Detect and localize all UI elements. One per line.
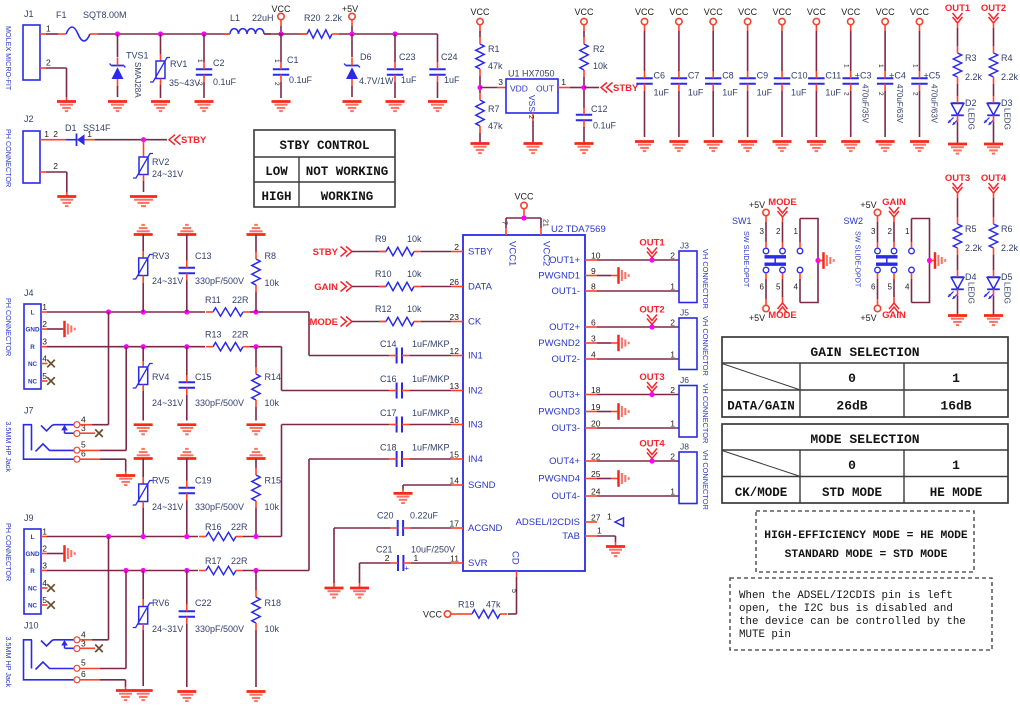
- svg-text:C18: C18: [380, 443, 397, 453]
- svg-text:R20: R20: [304, 13, 321, 23]
- svg-text:2.2k: 2.2k: [965, 243, 983, 253]
- svg-text:2: 2: [877, 92, 884, 96]
- capacitor C23 1uF: [387, 34, 417, 98]
- svg-text:DATA/GAIN: DATA/GAIN: [727, 400, 795, 414]
- wire U2 CD pin 5 to R19: [508, 571, 517, 614]
- svg-text:1uF: 1uF: [791, 88, 807, 98]
- capacitor C13 330pF/500V: [179, 235, 244, 313]
- net flag MODE (SW1 pin5): [768, 273, 797, 321]
- ground J2: [57, 197, 76, 207]
- svg-text:2: 2: [454, 242, 459, 252]
- svg-text:2: 2: [670, 251, 675, 261]
- wire U2 OUT2+ to J5: [597, 326, 679, 328]
- svg-text:2.2k: 2.2k: [1001, 72, 1019, 82]
- svg-text:1: 1: [46, 24, 51, 34]
- label VH CONNECTOR (J8): [701, 450, 710, 510]
- svg-text:3: 3: [42, 337, 47, 347]
- connector J8 VH CONNECTOR: [670, 442, 697, 504]
- svg-text:0.1uF: 0.1uF: [289, 75, 313, 85]
- svg-text:C23: C23: [399, 52, 416, 62]
- pin 15 (IN4) of U2: [450, 450, 483, 466]
- svg-text:+5V: +5V: [860, 200, 876, 210]
- svg-text:D1: D1: [65, 123, 77, 133]
- varistor RV3 24~31V: [133, 235, 184, 313]
- wire SW2 pin1 and pin4 bracket: [912, 219, 930, 303]
- svg-text:3: 3: [42, 561, 47, 571]
- svg-text:24~31V: 24~31V: [152, 502, 183, 512]
- svg-text:1: 1: [670, 487, 675, 497]
- svg-text:VCC: VCC: [738, 7, 758, 17]
- capacitor C17 1uF/MKP: [380, 408, 450, 433]
- svg-text:10: 10: [591, 251, 601, 261]
- label VH CONNECTOR (J5): [701, 316, 710, 376]
- ground C3: [841, 142, 860, 152]
- svg-text:10k: 10k: [593, 61, 608, 71]
- junction VCC-C1: [278, 31, 283, 36]
- svg-text:3.5MM HP Jack: 3.5MM HP Jack: [4, 637, 13, 688]
- svg-text:SVR: SVR: [468, 558, 488, 569]
- svg-text:MODE: MODE: [768, 197, 797, 208]
- svg-text:1: 1: [952, 458, 960, 473]
- svg-text:R9: R9: [375, 234, 387, 244]
- svg-text:1uF/MKP: 1uF/MKP: [412, 408, 450, 418]
- svg-text:330pF/500V: 330pF/500V: [195, 398, 244, 408]
- junction R2ch jack: [123, 568, 128, 573]
- svg-text:PH CONNECTOR: PH CONNECTOR: [4, 298, 13, 356]
- ground J9 pin2 (sideways): [65, 545, 75, 562]
- wire D4 to ground: [957, 296, 959, 316]
- wire J10 pin6 to ground: [80, 680, 125, 691]
- svg-text:2: 2: [53, 161, 58, 171]
- svg-text:21: 21: [542, 219, 549, 227]
- varistor RV2 24~31V: [133, 140, 183, 192]
- svg-text:MODE SELECTION: MODE SELECTION: [810, 432, 919, 447]
- svg-text:PWGND3: PWGND3: [538, 407, 580, 418]
- svg-text:WORKING: WORKING: [321, 190, 374, 204]
- power port VCC (C6): [635, 7, 655, 71]
- svg-text:1uF: 1uF: [688, 88, 704, 98]
- net flag OUT4: [981, 173, 1007, 193]
- svg-text:OUT1+: OUT1+: [549, 255, 580, 266]
- svg-text:R4: R4: [1001, 53, 1013, 63]
- junction L1ch RV3: [141, 309, 146, 314]
- svg-text:C20: C20: [377, 511, 394, 521]
- power port VCC (C10): [772, 7, 792, 71]
- svg-text:14: 14: [450, 476, 460, 486]
- wire R5 to D4: [957, 255, 959, 270]
- svg-text:2: 2: [776, 227, 781, 236]
- diode D1 SS14F: [46, 123, 111, 146]
- label VH CONNECTOR (J3): [701, 249, 710, 309]
- svg-text:VCC: VCC: [514, 192, 534, 202]
- svg-text:IN4: IN4: [468, 454, 483, 465]
- svg-text:C1: C1: [287, 55, 299, 65]
- svg-text:1: 1: [597, 526, 602, 536]
- svg-text:J3: J3: [680, 241, 689, 251]
- pin 18 (OUT3+) of U2: [549, 385, 601, 401]
- resistor R11 22R: [205, 295, 250, 316]
- svg-text:PH CONNECTOR: PH CONNECTOR: [4, 129, 13, 187]
- svg-text:2.2k: 2.2k: [325, 13, 343, 23]
- svg-text:13: 13: [450, 381, 460, 391]
- svg-text:GAIN: GAIN: [882, 197, 906, 208]
- no-connect J4 pin4: [41, 360, 55, 368]
- svg-text:C10: C10: [791, 71, 808, 81]
- wire GAIN to R10: [352, 286, 386, 288]
- wire J10 pin5: [80, 571, 126, 669]
- ground RV5 (inverted): [134, 449, 153, 459]
- capacitor C11 1uF: [808, 71, 841, 138]
- svg-text:RV2: RV2: [152, 157, 169, 167]
- resistor R20 2.2k: [300, 13, 343, 38]
- wire U1 VSS pin 2 to ground: [527, 113, 534, 144]
- svg-text:0: 0: [848, 371, 856, 386]
- power port VCC (C7): [669, 7, 689, 71]
- resistor R7 47k: [476, 93, 503, 133]
- svg-text:1: 1: [905, 227, 910, 236]
- svg-text:24~31V: 24~31V: [152, 624, 183, 634]
- svg-text:8: 8: [591, 282, 596, 292]
- junction L2ch RV5: [141, 534, 146, 539]
- wire OUT1 to R3: [957, 23, 959, 46]
- power port VCC (C9): [738, 7, 758, 71]
- svg-text:GAIN: GAIN: [882, 310, 906, 321]
- svg-text:12: 12: [450, 346, 460, 356]
- svg-text:U1: U1: [508, 69, 520, 79]
- svg-text:RV1: RV1: [170, 59, 187, 69]
- resistor R3 2.2k: [953, 46, 982, 84]
- svg-text:5: 5: [42, 371, 47, 381]
- svg-text:26: 26: [450, 277, 460, 287]
- svg-text:VDD: VDD: [510, 84, 528, 94]
- svg-text:10k: 10k: [265, 278, 280, 288]
- svg-text:R15: R15: [265, 476, 282, 486]
- svg-text:5: 5: [42, 595, 47, 605]
- ground C7: [669, 142, 688, 152]
- svg-text:7: 7: [501, 221, 508, 225]
- ground C23: [386, 102, 405, 112]
- pin 23 (CK) of U2: [450, 312, 482, 328]
- svg-text:PH CONNECTOR: PH CONNECTOR: [4, 523, 13, 581]
- capacitor C14 1uF/MKP: [380, 339, 450, 364]
- resistor R19 47k: [458, 600, 507, 619]
- svg-text:J4: J4: [24, 288, 34, 298]
- svg-text:1uF/MKP: 1uF/MKP: [412, 339, 450, 349]
- ground C2: [195, 102, 214, 112]
- ground RV6: [134, 691, 153, 701]
- svg-text:STANDARD MODE = STD MODE: STANDARD MODE = STD MODE: [785, 549, 948, 561]
- svg-text:L: L: [31, 534, 35, 541]
- connector J9 PH CONNECTOR: [24, 513, 47, 614]
- svg-text:5: 5: [888, 283, 893, 292]
- ground C6: [635, 142, 654, 152]
- pin 19 (PWGND3) of U2: [538, 402, 600, 418]
- power port VCC (C4): [876, 7, 896, 71]
- svg-text:47k: 47k: [488, 61, 503, 71]
- svg-text:1: 1: [670, 282, 675, 292]
- svg-text:NC: NC: [28, 603, 38, 610]
- junction OUT2: [649, 324, 654, 329]
- svg-text:HX7050: HX7050: [522, 69, 555, 79]
- svg-text:MOLEX MICRO-FIT: MOLEX MICRO-FIT: [4, 26, 13, 91]
- junction R2ch R18: [253, 568, 258, 573]
- junction R2ch C22: [184, 568, 189, 573]
- net flag GAIN (U2 input): [314, 282, 352, 294]
- svg-text:10k: 10k: [265, 624, 280, 634]
- svg-text:C12: C12: [591, 104, 608, 114]
- svg-text:VCC1: VCC1: [507, 241, 518, 266]
- net flag OUT4 (output): [639, 439, 665, 459]
- svg-text:+C4: +C4: [889, 71, 906, 81]
- wire OUT3 to R5: [957, 193, 959, 217]
- svg-text:1uF/MKP: 1uF/MKP: [412, 443, 450, 453]
- power port VCC (R19): [423, 610, 465, 620]
- resistor R18 10k: [252, 571, 281, 688]
- svg-text:J7: J7: [24, 405, 34, 415]
- svg-text:19: 19: [591, 402, 601, 412]
- ground RV1: [151, 102, 170, 112]
- wire D5 to ground: [993, 296, 995, 316]
- ground RV2: [130, 197, 157, 207]
- wire U2 OUT2- to J5: [597, 358, 679, 360]
- svg-text:SQT8.00M: SQT8.00M: [83, 10, 127, 20]
- svg-text:OUT4: OUT4: [639, 439, 665, 450]
- svg-text:C9: C9: [757, 71, 769, 81]
- svg-text:D2: D2: [965, 98, 977, 108]
- ground C4: [876, 142, 895, 152]
- svg-text:L: L: [31, 310, 35, 317]
- ground R18: [247, 692, 266, 702]
- power port +5V (SW1 pin6): [749, 273, 769, 323]
- svg-text:RV6: RV6: [152, 598, 169, 608]
- svg-text:ADSEL/I2CDIS: ADSEL/I2CDIS: [516, 517, 580, 528]
- svg-text:10k: 10k: [265, 398, 280, 408]
- svg-text:OUT4+: OUT4+: [549, 456, 580, 467]
- ground PWGND (OUT1, sideways): [619, 267, 629, 284]
- wire U2 OUT3+ to J6: [597, 394, 679, 396]
- net flag STBY (U1): [584, 83, 639, 95]
- svg-text:VCC: VCC: [807, 7, 827, 17]
- svg-text:RV5: RV5: [152, 476, 169, 486]
- label PH CONNECTOR J4: [4, 298, 13, 356]
- label PH CONNECTOR J2: [4, 129, 13, 187]
- svg-text:R13: R13: [205, 330, 222, 340]
- ground C8: [704, 142, 723, 152]
- inductor L1 22uH: [223, 13, 274, 34]
- capacitor C12 0.1uF: [576, 93, 617, 144]
- wire J10 pin4: [80, 537, 108, 640]
- power port +5V top: [342, 4, 358, 34]
- note HE/STD mode (dashed box): [756, 511, 974, 572]
- junction L2ch jack: [106, 534, 111, 539]
- zener D6 4.7V/1W: [344, 34, 394, 97]
- svg-text:R10: R10: [375, 269, 392, 279]
- svg-text:R6: R6: [1001, 224, 1013, 234]
- wire +5V rail: [339, 34, 438, 62]
- LED D2 LEDG: [948, 96, 977, 130]
- pin 12 (IN1) of U2: [450, 346, 483, 362]
- wire R10 to U2: [421, 286, 451, 288]
- resistor R1 47k: [476, 37, 503, 76]
- ground R8 (inverted): [247, 225, 266, 235]
- svg-text:LOW: LOW: [265, 165, 288, 179]
- svg-text:OUT2-: OUT2-: [552, 354, 581, 365]
- junction +5V-C23: [392, 31, 397, 36]
- resistor R2 10k: [580, 37, 608, 77]
- ground R7: [471, 144, 490, 154]
- svg-text:TVS1: TVS1: [126, 51, 149, 61]
- svg-text:IN3: IN3: [468, 420, 483, 431]
- svg-text:VCC: VCC: [772, 7, 792, 17]
- svg-text:2: 2: [196, 82, 203, 86]
- svg-text:6: 6: [871, 283, 876, 292]
- wire C18 to U2: [409, 458, 451, 460]
- svg-text:C7: C7: [688, 71, 700, 81]
- svg-text:OUT2: OUT2: [639, 305, 664, 316]
- svg-text:6: 6: [81, 669, 86, 679]
- wire input R1ch to C16: [263, 347, 389, 391]
- svg-text:When the ADSEL/I2CDIS pin is l: When the ADSEL/I2CDIS pin is left: [739, 590, 953, 602]
- svg-text:1uF: 1uF: [722, 88, 738, 98]
- svg-text:R2: R2: [593, 44, 605, 54]
- capacitor C8 1uF: [705, 71, 738, 138]
- wire STBY to R9: [352, 251, 386, 253]
- svg-text:RV4: RV4: [152, 372, 169, 382]
- LED D4 LEDG: [948, 270, 977, 304]
- svg-text:R11: R11: [205, 295, 221, 305]
- svg-text:4: 4: [42, 354, 47, 364]
- junction L2ch R15: [253, 534, 258, 539]
- resistor R15 10k: [252, 459, 281, 537]
- ground TVS1: [108, 102, 127, 112]
- svg-text:TAB: TAB: [562, 531, 580, 542]
- capacitor C24 1uF: [429, 52, 460, 98]
- connector J1 MOLEX MICRO-FIT: [23, 9, 58, 80]
- ground C24: [428, 102, 447, 112]
- pin 10 (OUT1+) of U2: [549, 251, 601, 267]
- junction L1ch C13: [184, 309, 189, 314]
- wire ADSEL/I2CDIS pin open: [607, 512, 624, 527]
- svg-text:GND: GND: [26, 327, 40, 334]
- junction +5V-D6: [349, 31, 354, 36]
- svg-text:+C5: +C5: [924, 71, 941, 81]
- svg-text:18: 18: [591, 385, 601, 395]
- junction OUT4: [649, 458, 654, 463]
- svg-text:D5: D5: [1001, 272, 1013, 282]
- wire U2 OUT4+ to J8: [597, 460, 679, 462]
- svg-text:J1: J1: [24, 9, 34, 19]
- svg-text:OUT3-: OUT3-: [552, 423, 581, 434]
- resistor R9 10k: [375, 234, 422, 256]
- wire U2 OUT1+ to J3: [597, 259, 679, 261]
- svg-text:2: 2: [843, 92, 850, 96]
- svg-text:CK: CK: [468, 317, 482, 328]
- power port VCC (C5): [910, 7, 930, 71]
- resistor R10 10k: [375, 269, 422, 291]
- varistor RV4 24~31V: [133, 347, 184, 421]
- svg-text:STBY: STBY: [313, 247, 339, 258]
- svg-text:PWGND4: PWGND4: [538, 474, 580, 485]
- svg-text:1: 1: [44, 129, 49, 139]
- svg-text:OUT4-: OUT4-: [552, 491, 581, 502]
- wire R2 to junction: [583, 77, 585, 93]
- wire TAB to ground: [597, 526, 616, 547]
- svg-text:2: 2: [385, 553, 390, 563]
- svg-text:10k: 10k: [407, 234, 422, 244]
- net flag STBY (J2): [169, 135, 207, 147]
- svg-text:F1: F1: [56, 10, 67, 20]
- ground R15 (inverted): [247, 449, 266, 459]
- ground SW2 (sideways): [935, 252, 945, 269]
- ground C20: [325, 588, 344, 598]
- wire D2 to ground: [957, 122, 959, 144]
- pin 25 (PWGND4) of U2: [538, 469, 600, 485]
- svg-text:R1: R1: [488, 44, 500, 54]
- wire row L1ch (J4 pin1): [41, 311, 205, 313]
- wire PWGND (OUT2): [597, 342, 618, 344]
- svg-text:C11: C11: [825, 71, 841, 81]
- svg-text:2: 2: [46, 58, 51, 68]
- connector J10 3.5MM HP Jack: [24, 621, 87, 683]
- resistor R17 22R: [199, 556, 248, 575]
- junction STBY-RV2: [141, 137, 146, 142]
- label 3.5MM HP Jack J10: [4, 637, 13, 688]
- capacitor C21 10uF/250V: [376, 545, 455, 573]
- junction SW1 bracket ground: [815, 258, 822, 263]
- capacitor C5 470uF/63V: [911, 64, 940, 137]
- svg-text:R7: R7: [488, 104, 500, 114]
- net flag MODE (U2 input): [310, 317, 353, 329]
- no-connect J10 pin3: [80, 645, 103, 653]
- svg-text:1uF: 1uF: [654, 88, 670, 98]
- wire R6 to D5: [993, 255, 995, 270]
- svg-text:IN2: IN2: [468, 386, 483, 397]
- wire input L1ch to C14: [263, 312, 389, 356]
- svg-text:OUT4: OUT4: [981, 173, 1007, 184]
- no-connect J9 pin4: [41, 584, 55, 592]
- svg-text:OUT2+: OUT2+: [549, 322, 580, 333]
- svg-text:OUT2: OUT2: [981, 3, 1006, 14]
- svg-text:R18: R18: [265, 598, 282, 608]
- svg-text:STD MODE: STD MODE: [822, 486, 882, 500]
- ground C19 (inverted): [177, 449, 196, 459]
- svg-text:MODE: MODE: [768, 310, 797, 321]
- ground D4: [948, 316, 967, 326]
- svg-text:SW1: SW1: [732, 216, 752, 226]
- svg-text:4.7V/1W: 4.7V/1W: [359, 76, 394, 86]
- svg-text:0.1uF: 0.1uF: [213, 77, 237, 87]
- svg-text:6: 6: [591, 318, 596, 328]
- wire VIN rail: [98, 33, 230, 35]
- ground PWGND (OUT4, sideways): [619, 470, 629, 487]
- svg-text:9: 9: [591, 266, 596, 276]
- svg-text:1uF/MKP: 1uF/MKP: [412, 374, 450, 384]
- resistor R5 2.2k: [953, 217, 982, 255]
- capacitor C1 0.1uF: [273, 34, 313, 98]
- svg-text:DATA: DATA: [468, 282, 493, 293]
- svg-text:J6: J6: [680, 375, 689, 385]
- wire U2 OUT3- to J6: [597, 427, 679, 429]
- svg-text:24~31V: 24~31V: [152, 398, 183, 408]
- wire J7 pin6 to ground: [80, 459, 126, 475]
- svg-text:23: 23: [450, 312, 460, 322]
- svg-text:LEDG: LEDG: [1003, 282, 1012, 304]
- ground C13 (inverted): [177, 225, 196, 235]
- power port VCC (C3): [841, 7, 861, 71]
- power port VCC (C8): [704, 7, 724, 71]
- power port +5V (SW2 pin3): [860, 200, 880, 248]
- svg-text:2: 2: [888, 227, 893, 236]
